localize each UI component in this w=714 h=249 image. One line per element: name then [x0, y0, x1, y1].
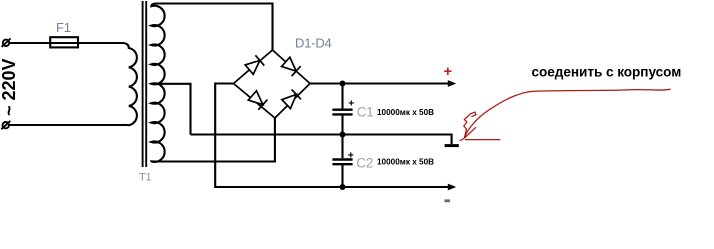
- svg-text:10000мк x 50В: 10000мк x 50В: [377, 158, 434, 167]
- junction node: C2 bottom / - rail: [340, 184, 346, 190]
- capacitor C1 leads: [341, 84, 343, 135]
- secondary winding of T1 with top lead to bridge top: [151, 4, 275, 162]
- arrowhead - output: [448, 184, 456, 191]
- red hand-drawn arrow to chassis: [460, 89, 671, 141]
- capacitor C2 plates: [332, 160, 352, 165]
- middle rail wire to chassis point: [191, 135, 452, 145]
- transformer core line 1: [142, 1, 144, 167]
- fuse F1: [50, 37, 78, 47]
- svg-text:10000мк x 50В: 10000мк x 50В: [377, 108, 434, 117]
- bridge rectifier diamond edges: [234, 50, 311, 118]
- wire: primary bottom to bottom terminal: [9, 124, 123, 126]
- diode D2 (top-right edge, cathode to right vertex): [281, 57, 301, 76]
- junction node: C1 top / + rail: [340, 81, 346, 87]
- diode D3 (bottom-left edge, cathode to bottom vertex): [248, 90, 267, 109]
- wire: bridge minus (left vertex) down to bottom rail: [215, 84, 448, 188]
- svg-text:C1: C1: [357, 104, 374, 119]
- svg-text:соеденить с корпусом: соеденить с корпусом: [532, 65, 682, 80]
- svg-text:+: +: [444, 64, 452, 80]
- primary winding of T1: [123, 43, 137, 125]
- capacitor C2 leads: [341, 135, 343, 188]
- transformer core line 2: [145, 1, 147, 167]
- arrowhead + output: [448, 80, 456, 87]
- svg-text:~ 220V: ~ 220V: [0, 58, 19, 116]
- junction node: C1-C2 middle rail: [340, 132, 346, 138]
- diode D4 (bottom-right edge, cathode to right vertex): [281, 89, 301, 109]
- diode D1 (top-left edge, cathode to top vertex): [245, 55, 264, 74]
- svg-text:D1-D4: D1-D4: [295, 36, 332, 51]
- wire: center tap to middle rail: [151, 84, 190, 135]
- wire: top terminal to fuse to primary top: [9, 42, 123, 44]
- svg-text:C2: C2: [356, 155, 373, 170]
- chassis ground bar: [445, 144, 459, 147]
- terminal X1 (top input): [2, 38, 11, 47]
- wire: bridge plus (right vertex) to top rail: [310, 82, 449, 84]
- gray minus at - rail: [445, 199, 450, 202]
- capacitor C1 plates: [332, 110, 352, 115]
- terminal X2 (bottom input): [1, 121, 10, 130]
- svg-text:F1: F1: [56, 20, 71, 35]
- svg-text:+: +: [348, 149, 354, 161]
- svg-text:T1: T1: [139, 171, 152, 183]
- svg-text:+: +: [348, 97, 354, 109]
